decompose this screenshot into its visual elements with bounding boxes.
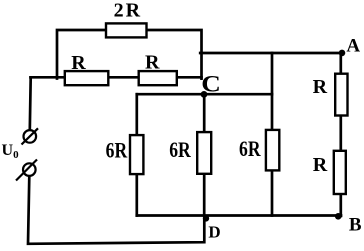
svg-text:R: R [313, 76, 328, 98]
svg-text:R: R [313, 154, 328, 176]
svg-text:6R: 6R [169, 138, 191, 162]
svg-text:A: A [346, 35, 360, 56]
svg-text:6R: 6R [239, 137, 261, 161]
svg-text:C: C [201, 72, 221, 97]
svg-text:R: R [71, 52, 86, 74]
svg-text:B: B [349, 215, 362, 236]
svg-text:D: D [208, 223, 220, 242]
svg-text:R: R [145, 52, 160, 74]
svg-text:2R: 2R [114, 0, 142, 22]
svg-text:6R: 6R [106, 139, 128, 163]
